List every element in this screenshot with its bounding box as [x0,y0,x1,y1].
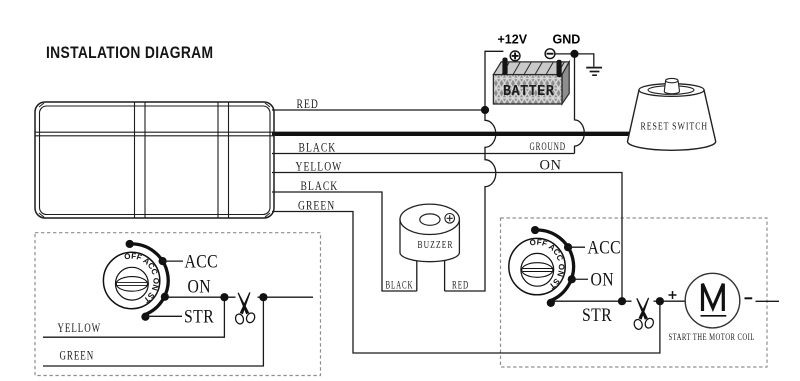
svg-text:BATTER: BATTER [503,83,554,100]
svg-text:ACC: ACC [588,237,622,257]
svg-text:GROUND: GROUND [530,140,566,153]
svg-text:YELLOW: YELLOW [58,322,102,336]
svg-text:GND: GND [553,33,581,47]
svg-text:ON: ON [591,269,615,289]
svg-text:ON: ON [540,158,562,174]
svg-text:BUZZER: BUZZER [418,239,454,250]
svg-text:INSTALATION DIAGRAM: INSTALATION DIAGRAM [46,44,213,62]
svg-text:RESET SWITCH: RESET SWITCH [641,121,709,132]
svg-text:BLACK: BLACK [299,141,337,155]
svg-text:STR: STR [582,305,612,325]
svg-text:RED: RED [452,279,469,292]
svg-text:GREEN: GREEN [60,349,95,363]
svg-text:RED: RED [297,98,319,112]
svg-text:START THE MOTOR COIL: START THE MOTOR COIL [669,332,755,342]
svg-text:BLACK: BLACK [386,279,414,292]
svg-text:YELLOW: YELLOW [296,160,343,174]
svg-text:ACC: ACC [185,251,219,271]
svg-text:ON: ON [188,276,212,296]
svg-text:STR: STR [184,306,214,326]
svg-text:BLACK: BLACK [301,180,339,194]
svg-text:+12V: +12V [498,33,528,47]
svg-text:GREEN: GREEN [298,199,335,213]
